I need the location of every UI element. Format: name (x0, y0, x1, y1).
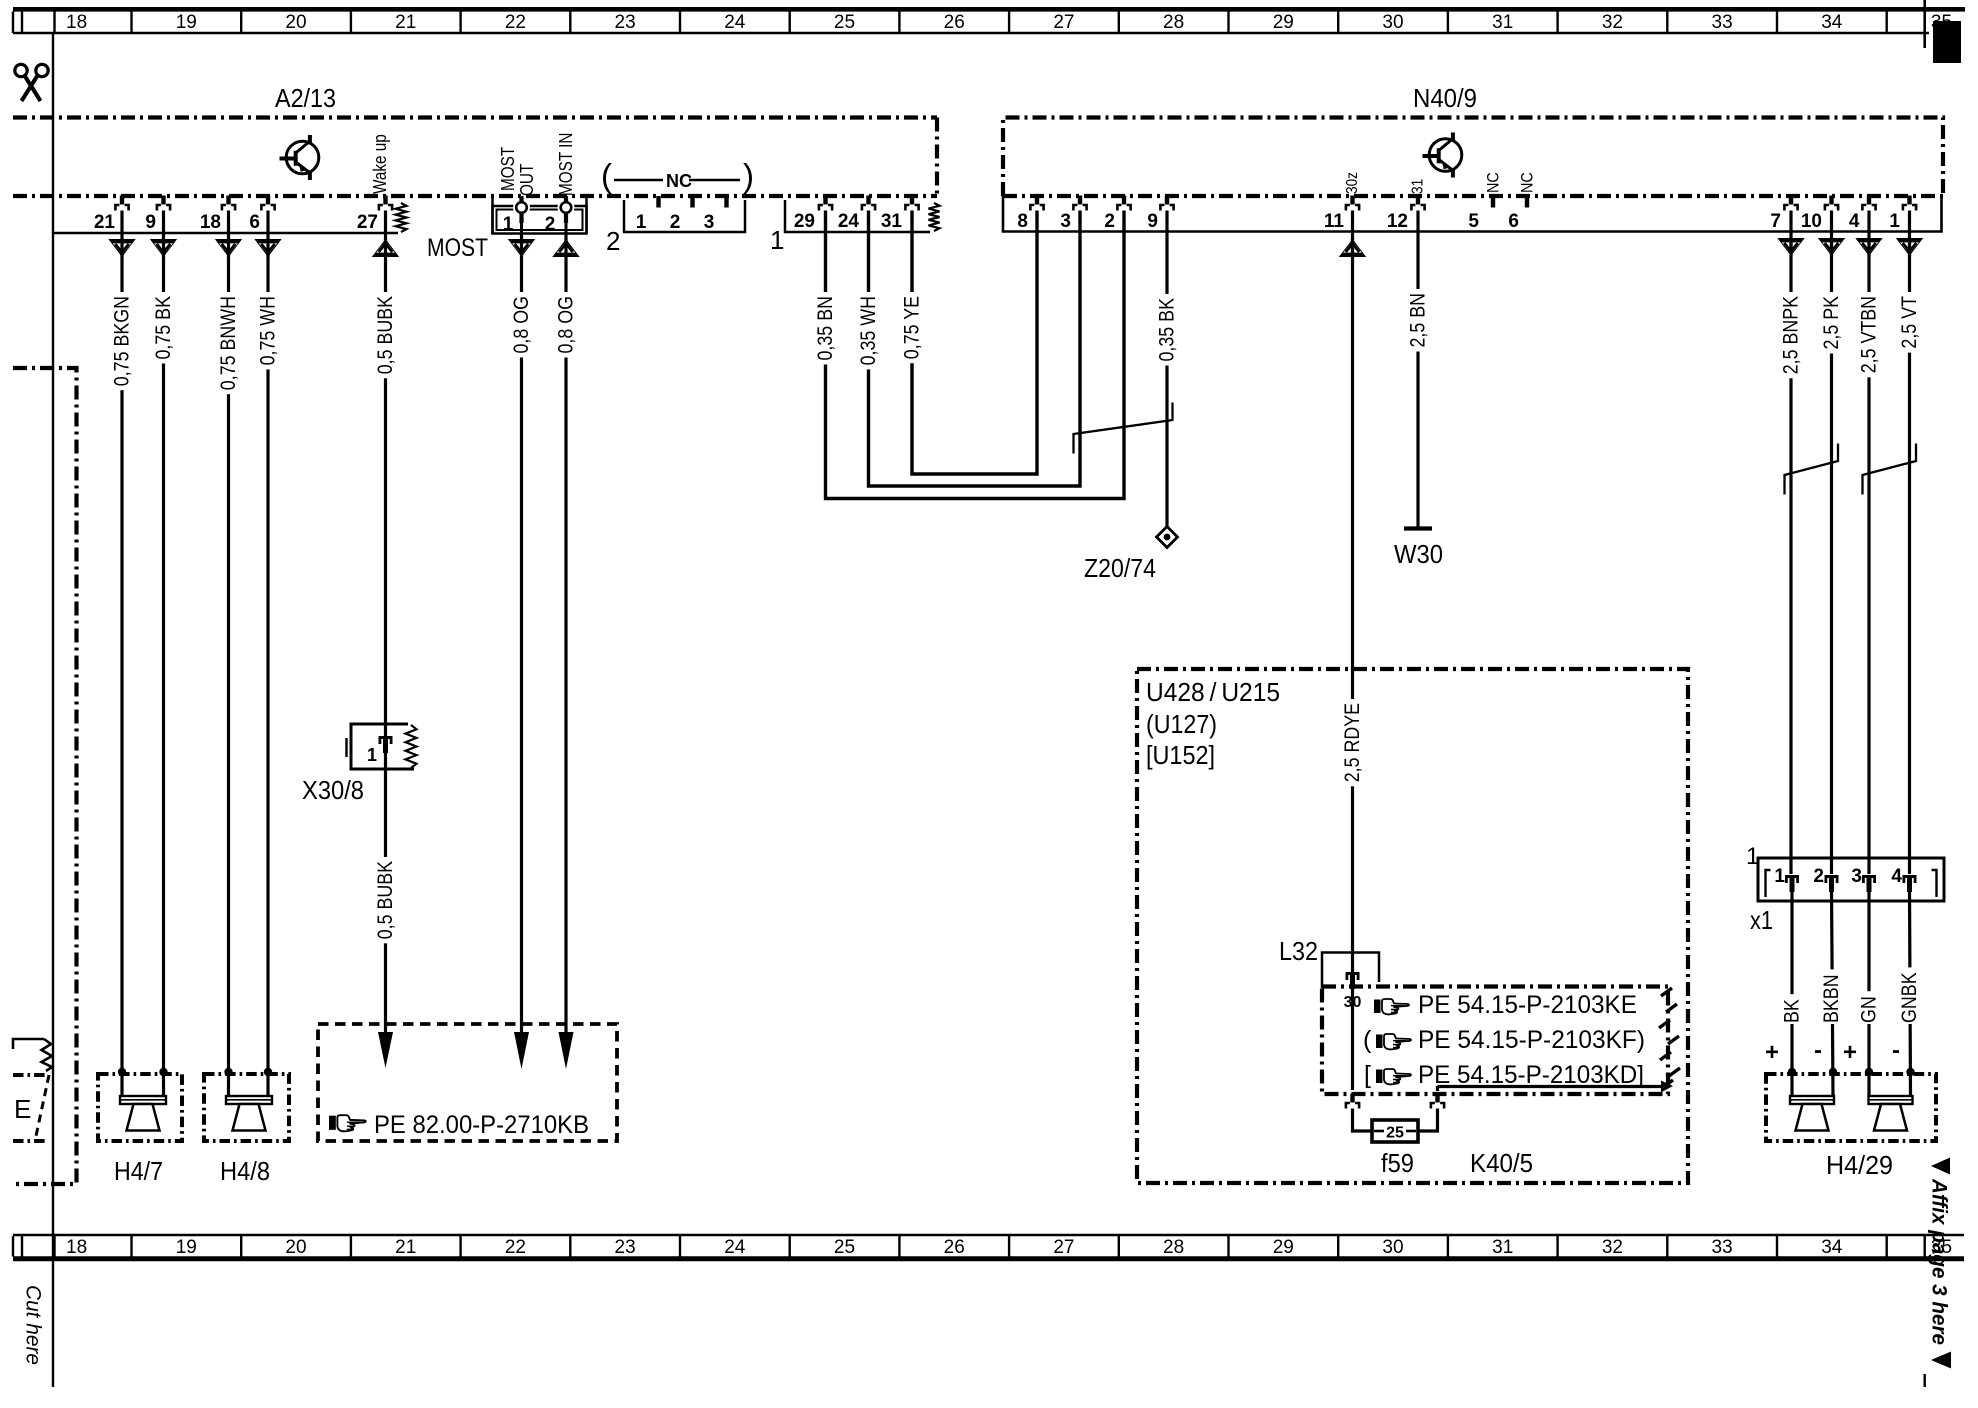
svg-text:MOST: MOST (427, 234, 488, 262)
speaker H4/8 box (204, 1074, 289, 1141)
svg-text:Z20/74: Z20/74 (1084, 553, 1156, 583)
pin 7 of N40/9 (1789, 196, 1793, 205)
svg-text:2,5 BNPK: 2,5 BNPK (1780, 296, 1803, 374)
arrow into wire 7 (1777, 238, 1804, 256)
transistor symbol in N40/9 (1429, 139, 1462, 172)
wire label 0,75 WH (257, 292, 280, 369)
arrow MOST IN (552, 239, 579, 257)
pin 4 of N40/9 (1867, 196, 1871, 205)
svg-text:23: 23 (615, 12, 636, 33)
arrow into PE box OG left (514, 1032, 529, 1069)
svg-text:1: 1 (1746, 843, 1759, 870)
arrow into PE box OG right (559, 1032, 574, 1069)
svg-text:28: 28 (1163, 12, 1184, 33)
wire x1-3 to H4/29 (GN) (1867, 889, 1870, 1096)
junction dot x1-2 (1829, 1068, 1837, 1076)
svg-text:X30/8: X30/8 (302, 775, 364, 805)
fuse f59 (25) (1372, 1120, 1418, 1142)
shield E wire (13, 1039, 44, 1049)
twisted pair symbol right A (1785, 461, 1839, 475)
Affix page 3 here label (1928, 1178, 1951, 1345)
junction dot x1-1 (1788, 1068, 1796, 1076)
svg-text:+: + (1843, 1039, 1857, 1066)
svg-text:31: 31 (1492, 12, 1513, 33)
svg-text:19: 19 (176, 12, 197, 33)
wire x1-1 to H4/29 (BK) (1790, 889, 1793, 1096)
svg-text:Wake up: Wake up (370, 134, 390, 194)
wire label 0,75 YE (901, 292, 924, 363)
speaker H4/29 box (1766, 1074, 1936, 1141)
svg-text:MOST: MOST (498, 147, 518, 191)
svg-text:9: 9 (145, 212, 156, 233)
pin 9 of N40/9 (1165, 196, 1169, 205)
wire x1-2 to H4/29 (BKBN) (1832, 889, 1834, 1096)
svg-text:30z: 30z (1344, 172, 1361, 194)
svg-text:(: ( (1363, 1026, 1372, 1054)
svg-text:2: 2 (545, 214, 556, 235)
svg-text:0,8 OG: 0,8 OG (555, 296, 578, 354)
svg-text:24: 24 (838, 211, 860, 232)
pin 1 NC tick (656, 196, 660, 208)
svg-text:18: 18 (66, 1237, 87, 1258)
speaker H4/7 symbol (120, 1096, 166, 1104)
svg-text:34: 34 (1821, 12, 1843, 33)
31 pin label (1410, 179, 1427, 194)
svg-text:31: 31 (881, 211, 903, 232)
wire pin27 to X30/8 (0,5 BUBK) (384, 211, 387, 1035)
MOST optical pin 1 (516, 202, 527, 213)
svg-text:27: 27 (357, 212, 378, 233)
svg-text:PE 82.00-P-2710KB: PE 82.00-P-2710KB (374, 1111, 589, 1139)
svg-text:x1: x1 (1750, 905, 1773, 935)
pin out of K40/5 right (1435, 1094, 1439, 1103)
svg-text:25: 25 (834, 1237, 855, 1258)
svg-text:2: 2 (1813, 866, 1824, 887)
pin 6 NC tick (1525, 196, 1529, 208)
svg-text:PE 54.15-P-2103KF): PE 54.15-P-2103KF) (1418, 1026, 1645, 1054)
svg-text:0,35 WH: 0,35 WH (857, 296, 880, 365)
svg-text:2,5 RDYE: 2,5 RDYE (1341, 703, 1364, 782)
wire from K40/5 right exit (1438, 1085, 1662, 1088)
PE 82.00-P-2710KB reference box (318, 1024, 617, 1141)
svg-text:30: 30 (1382, 1237, 1403, 1258)
wire MOST OUT (0,8 OG) (520, 234, 523, 1035)
svg-text:N40/9: N40/9 (1413, 83, 1477, 113)
svg-text:MOST IN: MOST IN (556, 133, 576, 197)
NC pin label 5 (1484, 172, 1503, 193)
pin 4 of x1 (1903, 875, 1917, 878)
wire pin9 to H4/7 (0,75 BK) (162, 211, 165, 1097)
wire MOST IN (0,8 OG) (564, 234, 567, 1035)
wire label 2,5 VT (1898, 292, 1921, 353)
connector x1 box (1758, 858, 1944, 901)
pin 10 of N40/9 (1829, 196, 1833, 205)
svg-text:1: 1 (1889, 211, 1900, 232)
wire label BKBN (1820, 969, 1843, 1024)
terminal W30 (1404, 526, 1432, 530)
pin 27 of A2/13 (383, 196, 387, 205)
pin 31 of A2/13 (910, 196, 914, 205)
svg-text:1: 1 (770, 225, 784, 255)
bus tear squiggle (396, 203, 407, 232)
wire from fuse right (1418, 1109, 1438, 1132)
svg-text:33: 33 (1712, 12, 1733, 33)
wire label 0,5 BUBK lower (374, 857, 397, 943)
wire label 2,5 RDYE (1341, 699, 1364, 786)
svg-text:19: 19 (176, 1237, 197, 1258)
terminal 30 bracket L32 (1322, 953, 1379, 989)
pin 2 NC tick (690, 196, 694, 208)
label 30 inside K40/5 (1342, 994, 1363, 1008)
svg-text:33: 33 (1712, 1237, 1733, 1258)
svg-text:3: 3 (1060, 211, 1071, 232)
svg-text:0,5 BUBK: 0,5 BUBK (374, 861, 397, 939)
svg-text:21: 21 (395, 12, 416, 33)
pin 11 of N40/9 (1350, 196, 1354, 205)
svg-text:3: 3 (704, 212, 715, 233)
svg-text:L32: L32 (1279, 936, 1318, 966)
svg-text:GNBK: GNBK (1898, 972, 1921, 1023)
MOST connector box on A2/13 (491, 196, 494, 234)
MOST IN pin label (556, 133, 576, 197)
svg-text:PE 54.15-P-2103KE: PE 54.15-P-2103KE (1418, 991, 1637, 1019)
control unit N40/9 box (1003, 118, 1943, 197)
wire x1-4 to H4/29 (GNBK) (1910, 889, 1911, 1096)
wire label GN (1858, 991, 1881, 1024)
svg-text:E: E (14, 1094, 31, 1124)
junction dot x1-4 (1906, 1068, 1914, 1076)
svg-text:[: [ (1364, 1061, 1371, 1089)
wire pin11 to K40/5 (2,5 RDYE) (1351, 211, 1354, 974)
scissors icon (15, 64, 48, 101)
NC pin label 6 (1518, 172, 1537, 193)
wire label 0,35 WH (857, 292, 880, 369)
wire label 0,75 BK (152, 292, 175, 364)
svg-text:1: 1 (367, 745, 377, 765)
wire label 2,5 PK (1820, 292, 1843, 354)
pin 5 NC tick (1491, 196, 1495, 208)
svg-text:4: 4 (1891, 866, 1902, 887)
svg-text:PE 54.15-P-2103KD]: PE 54.15-P-2103KD] (1418, 1061, 1644, 1089)
svg-text:30: 30 (1382, 12, 1403, 33)
svg-text:6: 6 (249, 212, 260, 233)
pin 3 of x1 (1862, 875, 1876, 878)
svg-text:0,35 BK: 0,35 BK (1156, 298, 1179, 362)
pin 2 of x1 (1825, 875, 1839, 878)
N40/9 pin bus (1003, 196, 1942, 232)
Affix page 3 here marker top (1931, 1158, 1950, 1175)
svg-text:24: 24 (724, 1237, 746, 1258)
wire pin18 to H4/8 (0,75 BNWH) (227, 211, 230, 1097)
amplifier U428/U215 box (1137, 669, 1688, 1183)
A2/13 connector 1 box (785, 200, 930, 232)
pin out of K40/5 left (1350, 1094, 1354, 1103)
pin 18 of A2/13 (226, 196, 230, 205)
twisted pair symbol right B (1863, 461, 1917, 475)
top coordinate ruler (13, 7, 1965, 12)
svg-text:28: 28 (1163, 1237, 1184, 1258)
svg-text:25: 25 (1386, 1125, 1404, 1142)
svg-text:7: 7 (1770, 211, 1781, 232)
wire label GNBK (1898, 967, 1921, 1024)
svg-text:25: 25 (834, 12, 855, 33)
arrow out of pin 27 (372, 239, 399, 257)
hand icon row 1 (1374, 999, 1409, 1014)
svg-text:22: 22 (505, 12, 526, 33)
svg-text:2: 2 (1104, 211, 1115, 232)
wire label 0,75 BNWH (217, 292, 240, 394)
wire label 0,35 BN (814, 292, 837, 365)
hand icon PE 82 (329, 1115, 366, 1131)
pin 1 of X30/8 (379, 736, 393, 739)
svg-text:2,5 VT: 2,5 VT (1898, 296, 1921, 349)
speaker H4/8 symbol (226, 1096, 272, 1104)
svg-text:18: 18 (200, 212, 221, 233)
wire label 2,5 BNPK (1780, 292, 1803, 378)
svg-text:2,5 VTBN: 2,5 VTBN (1858, 296, 1881, 373)
pin 30 into K40/5 (1346, 972, 1360, 975)
svg-text:BK: BK (1781, 999, 1804, 1023)
wire pin10 to x1 (2,5 PK) (1830, 211, 1833, 875)
arrow out of pin 11 (1339, 239, 1366, 257)
svg-text:+: + (1765, 1039, 1779, 1066)
svg-text:NC: NC (666, 171, 692, 191)
page corner mark (black) (1923, 0, 1926, 48)
pin 1 of x1 (1785, 875, 1799, 878)
svg-text:0,75 YE: 0,75 YE (901, 296, 924, 359)
svg-text:26: 26 (944, 1237, 965, 1258)
svg-text:29: 29 (1273, 12, 1294, 33)
svg-text:29: 29 (794, 211, 815, 232)
cut line (52, 33, 54, 1387)
module boundary left (door) (13, 368, 77, 1184)
pin 8 of N40/9 (1035, 196, 1039, 205)
wire label 2,5 VTBN (1858, 292, 1881, 377)
arrow into wire 1 (1896, 238, 1923, 256)
svg-text:2,5 PK: 2,5 PK (1820, 296, 1843, 350)
svg-text:22: 22 (505, 1237, 526, 1258)
svg-text:20: 20 (285, 1237, 306, 1258)
svg-text:K40/5: K40/5 (1470, 1148, 1533, 1178)
wire label 0,35 BK (1156, 294, 1179, 366)
wire pin31 to N40/9 pin8 (0,75 YE) (912, 211, 1037, 475)
svg-text:0,75 BNWH: 0,75 BNWH (217, 296, 240, 390)
svg-text:NC: NC (1518, 172, 1537, 193)
arrow into speaker wire 6 (254, 239, 281, 257)
svg-text:H4/29: H4/29 (1826, 1150, 1893, 1180)
arrow into speaker wire 21 (108, 239, 135, 257)
svg-text:f59: f59 (1381, 1148, 1414, 1178)
svg-text:GN: GN (1858, 996, 1881, 1023)
svg-text:): ) (743, 157, 754, 194)
svg-text:-: - (1892, 1037, 1900, 1064)
pin 29 of A2/13 (823, 196, 827, 205)
wire pin29 to N40/9 pin2 (0,35 BN) (826, 211, 1125, 499)
svg-text:0,5 BUBK: 0,5 BUBK (374, 296, 397, 374)
svg-text:27: 27 (1053, 1237, 1074, 1258)
pin 12 of N40/9 (1416, 196, 1420, 205)
svg-text:0,35 BN: 0,35 BN (814, 296, 837, 361)
speaker H4/29 left symbol (1790, 1096, 1834, 1104)
svg-text:Cut here: Cut here (22, 1285, 45, 1365)
svg-text:21: 21 (395, 1237, 416, 1258)
svg-text:4: 4 (1849, 211, 1860, 232)
Wake up pin label (370, 134, 390, 194)
svg-text:23: 23 (615, 1237, 636, 1258)
pin 1 of N40/9 (1907, 196, 1911, 205)
wire pin7 to x1 (2,5 BNPK) (1789, 211, 1792, 875)
wire label 2,5 BN (1407, 289, 1430, 352)
svg-text:32: 32 (1602, 1237, 1623, 1258)
svg-text:(U127): (U127) (1146, 709, 1217, 739)
svg-text:2,5 BN: 2,5 BN (1407, 293, 1430, 348)
transistor symbol in A2/13 (286, 141, 319, 174)
MOST optical pin 2 (561, 202, 572, 213)
arrow into speaker wire 9 (150, 239, 177, 257)
wire 30 to fuse f59 (1351, 988, 1354, 1090)
svg-text:1: 1 (1774, 866, 1785, 887)
wire pin1 to x1 (2,5 VT) (1908, 211, 1911, 875)
speaker H4/29 right symbol (1869, 1096, 1913, 1104)
svg-text:A2/13: A2/13 (275, 83, 336, 113)
pin 24 of A2/13 (866, 196, 870, 205)
junction dot wire6 (264, 1068, 272, 1076)
tear marks K40/5 (1661, 988, 1672, 996)
svg-text:0,75 WH: 0,75 WH (257, 296, 280, 365)
A2/13 main pin bus (53, 232, 398, 235)
twisted pair symbol middle (1074, 420, 1173, 434)
svg-text:U428 / U215: U428 / U215 (1146, 677, 1280, 707)
wire pin24 to N40/9 pin3 (0,35 WH) (869, 211, 1081, 487)
arrow into PE box from X30/8 (378, 1032, 393, 1068)
svg-text:NC: NC (1484, 172, 1503, 193)
svg-text:2: 2 (670, 212, 681, 233)
svg-text:27: 27 (1053, 12, 1074, 33)
pin 9 of A2/13 (161, 196, 165, 205)
speaker H4/7 box (98, 1074, 182, 1141)
svg-text:12: 12 (1387, 211, 1408, 232)
svg-text:0,8 OG: 0,8 OG (510, 296, 533, 354)
wire label 0,5 BUBK upper (374, 292, 397, 378)
svg-text:OUT: OUT (517, 164, 537, 196)
svg-text:6: 6 (1508, 211, 1519, 232)
fuse box K40/5 (torn) (1322, 987, 1668, 1095)
wire pin12 to W30 (2,5 BN) (1416, 211, 1419, 528)
MOST OUT pin label (498, 147, 518, 191)
control unit A2/13 box (13, 115, 937, 119)
junction dot wire21 (118, 1068, 126, 1076)
pin 6 of A2/13 (266, 196, 270, 205)
wire pin9 to Z20/74 (0,35 BK) (1165, 211, 1168, 527)
Cut here label (22, 1285, 45, 1365)
wire to fuse left (1353, 1109, 1373, 1132)
wire pin21 to H4/7 (0,75 BKGN) (120, 211, 123, 1097)
svg-text:-: - (1814, 1037, 1822, 1064)
arrow into wire 4 (1855, 238, 1882, 256)
svg-text:0,75 BKGN: 0,75 BKGN (111, 296, 134, 386)
svg-text:8: 8 (1017, 211, 1028, 232)
svg-text:W30: W30 (1394, 539, 1443, 569)
shield box E (13, 1073, 47, 1077)
connector X30/8 box (351, 724, 414, 769)
wire label BK (1781, 994, 1804, 1024)
wire label 0,8 OG left (510, 292, 533, 358)
pin 3 NC tick (724, 196, 728, 208)
wire pin4 to x1 (2,5 VTBN) (1867, 211, 1870, 875)
svg-text:29: 29 (1273, 1237, 1294, 1258)
svg-text:11: 11 (1324, 211, 1345, 232)
svg-text:20: 20 (285, 12, 306, 33)
wire pin6 to H4/8 (0,75 WH) (266, 211, 269, 1097)
svg-text:9: 9 (1147, 211, 1158, 232)
arrow into speaker wire 18 (215, 239, 242, 257)
arrow into wire 10 (1818, 238, 1845, 256)
bottom coordinate ruler (13, 1234, 1964, 1236)
svg-text:32: 32 (1602, 12, 1623, 33)
svg-text:18: 18 (66, 12, 87, 33)
svg-text:26: 26 (944, 12, 965, 33)
svg-text:0,75 BK: 0,75 BK (152, 296, 175, 360)
arrow MOST OUT (508, 239, 535, 257)
A2/13 connector 2 box (NC pins) (624, 200, 745, 232)
svg-text:21: 21 (94, 212, 116, 233)
wire label 0,75 BKGN (111, 292, 134, 390)
svg-text:[U152]: [U152] (1146, 740, 1215, 770)
right margin tick (1923, 1374, 1925, 1387)
svg-text:2: 2 (606, 226, 620, 256)
ground sleeve Z20/74 (1157, 527, 1178, 548)
svg-text:H4/8: H4/8 (220, 1156, 270, 1186)
svg-text:Affix page 3 here: Affix page 3 here (1928, 1178, 1951, 1345)
svg-text:3: 3 (1851, 866, 1862, 887)
junction dot wire18 (224, 1068, 232, 1076)
Affix page 3 here marker bottom (1931, 1352, 1951, 1369)
junction dot x1-3 (1865, 1068, 1873, 1076)
svg-text:1: 1 (636, 212, 647, 233)
pin 2 of N40/9 (1122, 196, 1126, 205)
svg-text:(: ( (601, 157, 612, 194)
pin 3 of N40/9 (1078, 196, 1082, 205)
svg-text:31: 31 (1410, 179, 1427, 194)
svg-text:24: 24 (724, 12, 746, 33)
30z pin label (1344, 172, 1361, 194)
svg-text:10: 10 (1801, 211, 1822, 232)
wire label 0,8 OG right (555, 292, 578, 358)
pin 21 of A2/13 (120, 196, 124, 205)
svg-text:BKBN: BKBN (1820, 974, 1843, 1023)
svg-text:H4/7: H4/7 (114, 1156, 163, 1186)
svg-text:34: 34 (1821, 1237, 1843, 1258)
svg-text:31: 31 (1492, 1237, 1513, 1258)
junction dot wire9 (159, 1068, 167, 1076)
svg-text:1: 1 (503, 214, 514, 235)
svg-text:5: 5 (1468, 211, 1479, 232)
